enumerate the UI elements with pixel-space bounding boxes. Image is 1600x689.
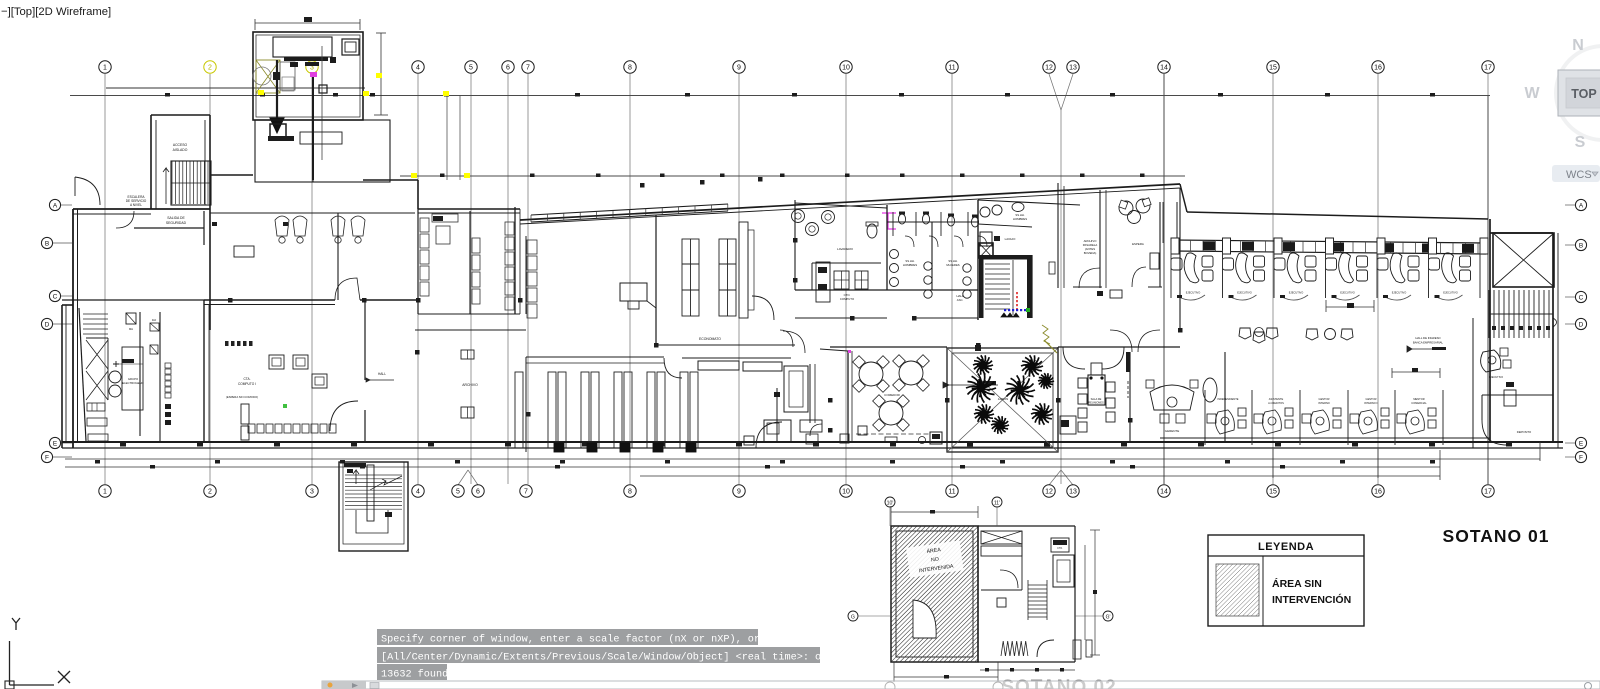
svg-text:BOVEDA): BOVEDA) bbox=[1084, 251, 1097, 255]
lobby chairs group 1 bbox=[1239, 328, 1251, 339]
subplan lower door arc bbox=[1037, 640, 1054, 657]
subplan right dimension lines bbox=[1094, 530, 1096, 655]
svg-text:GESTOR: GESTOR bbox=[1366, 397, 1377, 401]
subplan interior walls bbox=[1021, 531, 1023, 590]
electrogeno right stack bbox=[165, 363, 171, 398]
bottom dimension ticks row2 bbox=[150, 465, 155, 469]
computo hatch strip bbox=[225, 341, 253, 346]
svg-text:C: C bbox=[53, 293, 58, 300]
stair core heavy walls bbox=[979, 255, 984, 318]
right window band dark segments bbox=[1203, 241, 1474, 253]
tower arrow small marks bbox=[273, 72, 280, 80]
svg-text:B: B bbox=[1579, 242, 1583, 249]
green dot bbox=[283, 404, 287, 408]
right rotated cubicle bbox=[1481, 350, 1501, 372]
svg-text:ARCHIVO: ARCHIVO bbox=[462, 383, 478, 387]
bath hombres fixtures bbox=[890, 250, 899, 259]
subplan comb hatch bottom bbox=[1001, 641, 1028, 656]
svg-text:15: 15 bbox=[1269, 65, 1277, 72]
right window band mullions bbox=[1178, 240, 1478, 254]
darker grid lines 14 and 17 bbox=[1163, 74, 1165, 484]
grid bubbles bottom row 1-17 bbox=[99, 485, 1494, 497]
external stair inner landing bbox=[356, 510, 388, 533]
tower dimension right bbox=[380, 33, 382, 115]
svg-text:D: D bbox=[1579, 321, 1584, 328]
svg-text:LAVADERO: LAVADERO bbox=[837, 247, 854, 251]
subplan top X boxes bbox=[981, 531, 1022, 544]
lavadero room walls bbox=[794, 200, 796, 290]
svg-text:(ESPERA SIN COMODO): (ESPERA SIN COMODO) bbox=[226, 395, 258, 399]
svg-text:FLD: FLD bbox=[152, 320, 157, 322]
yellow highlight squares bbox=[258, 90, 264, 95]
svg-text:ESPERA: ESPERA bbox=[1132, 242, 1144, 246]
jardin palm trees bbox=[973, 355, 993, 374]
svg-text:1: 1 bbox=[103, 489, 107, 496]
svg-text:C: C bbox=[1579, 294, 1584, 301]
economato separating wall bbox=[655, 215, 657, 345]
sala chairs bbox=[1078, 378, 1087, 388]
dark door posts left section bbox=[283, 222, 288, 226]
gerente desk bbox=[1150, 385, 1194, 410]
secondary dimension line with ticks bbox=[400, 175, 1185, 177]
svg-text:D: D bbox=[45, 321, 50, 328]
legend box bbox=[1208, 535, 1364, 626]
corridor wall segments left of comedor bbox=[809, 364, 811, 423]
svg-text:SALIDA DE: SALIDA DE bbox=[167, 216, 185, 220]
gerente side table bbox=[1203, 378, 1217, 402]
door arc salida bbox=[116, 211, 134, 228]
deposito door arc bbox=[1482, 420, 1507, 445]
left corridor wall bbox=[204, 299, 335, 301]
salida de seguridad room walls bbox=[134, 227, 204, 229]
svg-text:E: E bbox=[53, 440, 58, 447]
svg-text:INDEPENDIENTE: INDEPENDIENTE bbox=[1217, 397, 1238, 401]
tower small rects bbox=[280, 62, 295, 90]
svg-text:GERENTE: GERENTE bbox=[1165, 429, 1180, 433]
subplan cuarto maquinas box bbox=[1051, 538, 1069, 552]
svg-text:10': 10' bbox=[887, 501, 894, 507]
door arc corridor bbox=[335, 278, 360, 300]
sofa strip left of economato bbox=[527, 240, 537, 318]
magenta fixture marker bbox=[882, 213, 896, 229]
tower below rooms bbox=[255, 120, 390, 182]
svg-text:9: 9 bbox=[737, 489, 741, 496]
svg-text:INTERNO II: INTERNO II bbox=[1364, 401, 1378, 405]
svg-text:WCS: WCS bbox=[1566, 169, 1592, 181]
storage room B walls bbox=[514, 207, 516, 314]
right window band bay posts bbox=[1171, 238, 1488, 254]
svg-text:N: N bbox=[1572, 37, 1584, 54]
svg-text:ACCESO: ACCESO bbox=[173, 143, 188, 147]
comedor bottom counter dashed bbox=[856, 433, 930, 435]
upper dimension line ticks bbox=[165, 93, 170, 97]
subplan hatched area outer walls bbox=[891, 526, 978, 662]
stair core red marks bbox=[1016, 292, 1018, 310]
archivo shelf columns bbox=[515, 372, 698, 448]
espera door arc bbox=[1079, 268, 1100, 288]
command history line 1 bbox=[377, 629, 758, 645]
archivo top counter bbox=[526, 356, 664, 358]
computo lower counter appliances bbox=[248, 424, 336, 433]
svg-text:AISLADO: AISLADO bbox=[173, 148, 188, 152]
gerente room walls bbox=[1224, 352, 1226, 442]
subplan area no intervenida label bbox=[906, 540, 964, 577]
svg-text:13632 found: 13632 found bbox=[381, 669, 448, 681]
right section bottom double wall bbox=[1160, 437, 1490, 439]
bottom dimension ticks bbox=[95, 460, 100, 464]
grid bubbles top row 1-17 bbox=[99, 61, 1494, 73]
elevator shaft X right bbox=[1493, 233, 1554, 287]
espera sofa rect bbox=[1150, 253, 1159, 269]
right stair rail squares bbox=[1492, 326, 1496, 330]
svg-text:A.CREDITOS: A.CREDITOS bbox=[1268, 401, 1284, 405]
subplan door arc interior bbox=[1000, 570, 1018, 588]
svg-text:12: 12 bbox=[1045, 65, 1053, 72]
electrogeno tanks bbox=[109, 371, 121, 383]
svg-text:[All/Center/Dynamic/Extents/Pr: [All/Center/Dynamic/Extents/Previous/Sca… bbox=[381, 652, 821, 664]
dispenso shelf strip bbox=[816, 262, 830, 302]
svg-text:EJECUTIVO: EJECUTIVO bbox=[1392, 291, 1407, 295]
training room inner walls bbox=[337, 213, 339, 300]
ramp top stair treads bbox=[83, 314, 108, 334]
storage room B shelves bbox=[472, 222, 514, 310]
bath stall partitions top bbox=[893, 212, 968, 236]
building bottom exterior wall bbox=[62, 441, 1563, 443]
lower cubicle partitions bbox=[1205, 390, 1443, 445]
zigzag door seal bbox=[1042, 325, 1050, 344]
ramp left slanted wall bbox=[79, 308, 86, 441]
ucs icon Y axis bbox=[12, 618, 20, 630]
svg-text:REUNIONES: REUNIONES bbox=[1088, 401, 1104, 405]
svg-text:MENTOR: MENTOR bbox=[1413, 397, 1424, 401]
svg-text:17: 17 bbox=[1484, 489, 1492, 496]
subplan stair vertical run bbox=[1028, 580, 1047, 620]
jardin diagonals bbox=[947, 348, 1058, 452]
stair upper-left up arrow bbox=[163, 168, 169, 204]
tower small square marker on line bbox=[319, 85, 327, 93]
subplan bubbles top bbox=[885, 497, 895, 507]
bath stall door arcs bbox=[905, 236, 914, 247]
mid window band bbox=[531, 204, 728, 215]
svg-text:G: G bbox=[851, 615, 855, 621]
lower rooms top wall bbox=[830, 346, 947, 348]
svg-text:5: 5 bbox=[469, 65, 473, 72]
garden top wall tick bbox=[975, 345, 981, 351]
svg-text:6: 6 bbox=[506, 65, 510, 72]
top-left block walls bbox=[73, 208, 210, 210]
magenta marker small bbox=[310, 72, 317, 77]
stair core blue dots bbox=[1004, 309, 1026, 311]
svg-text:10: 10 bbox=[842, 65, 850, 72]
bath mujeres fixtures bbox=[963, 264, 971, 272]
svg-text:W: W bbox=[1524, 85, 1540, 102]
dimension bracket over mentor cubicle bbox=[1392, 371, 1440, 373]
svg-text:SEGURIDAD: SEGURIDAD bbox=[166, 221, 187, 225]
subplan side bubbles bbox=[848, 611, 858, 621]
svg-text:13: 13 bbox=[1069, 65, 1077, 72]
svg-text:HOMBRES: HOMBRES bbox=[1013, 217, 1027, 221]
tower corner double square bbox=[342, 39, 359, 55]
svg-text:COMERCIAL: COMERCIAL bbox=[1411, 401, 1427, 405]
sala corner machine bbox=[1061, 420, 1069, 427]
left section corridor wall bbox=[62, 299, 204, 301]
left exterior wall bbox=[72, 209, 74, 448]
electrogeno black dashes bbox=[165, 404, 171, 409]
storage room A dark marks bbox=[433, 216, 443, 221]
hall arrow bbox=[366, 378, 370, 382]
economato door arc bbox=[752, 296, 774, 320]
subplan right block walls bbox=[978, 525, 1075, 527]
command history line 2 bbox=[377, 647, 820, 663]
tram vertical label bbox=[1049, 262, 1055, 274]
archivo left wall bbox=[525, 357, 527, 452]
bottom wall door ticks bbox=[120, 443, 126, 447]
svg-text:17: 17 bbox=[1484, 65, 1492, 72]
wcs selector bbox=[1552, 165, 1600, 182]
svg-text:A: A bbox=[53, 202, 58, 209]
long interior wall below band bbox=[525, 236, 527, 314]
svg-text:15: 15 bbox=[1269, 489, 1277, 496]
svg-text:EJECUTIVO: EJECUTIVO bbox=[1186, 291, 1201, 295]
executive cubicle row top bbox=[1171, 253, 1213, 300]
sala black post and dashes bbox=[1126, 352, 1130, 372]
espera walls bbox=[1159, 202, 1161, 287]
svg-text:GESTOR: GESTOR bbox=[1319, 397, 1330, 401]
svg-text:F: F bbox=[1579, 454, 1583, 461]
escalator symbol box bbox=[126, 313, 136, 324]
svg-text:HOMBRES: HOMBRES bbox=[903, 263, 917, 267]
svg-text:16: 16 bbox=[1374, 65, 1382, 72]
bath block bottom wall bbox=[795, 289, 978, 291]
svg-text:INTERNO: INTERNO bbox=[1318, 401, 1330, 405]
svg-text:11: 11 bbox=[948, 65, 955, 72]
sala table bbox=[1088, 375, 1105, 405]
FLD boxes bbox=[150, 323, 159, 331]
subplan door arc white bbox=[913, 600, 936, 638]
shaft verticals above building bbox=[446, 96, 448, 180]
wall left of deposito bbox=[1472, 318, 1474, 448]
short dark dimension line upper-left bbox=[106, 87, 365, 89]
wall right of espera bbox=[1179, 188, 1181, 330]
lavajo room bbox=[978, 224, 1032, 227]
bottom dimension vertical drops bbox=[1272, 449, 1274, 478]
svg-text:NO: NO bbox=[931, 556, 940, 563]
svg-text:COMPUTO I: COMPUTO I bbox=[238, 382, 256, 386]
archivo door arc bbox=[664, 358, 682, 378]
svg-text:14: 14 bbox=[1160, 489, 1168, 496]
external stair black mark bbox=[385, 512, 392, 517]
slanted top exterior wall bbox=[520, 184, 1180, 220]
tower inner room rect bbox=[273, 37, 332, 57]
svg-text:E: E bbox=[1579, 440, 1584, 447]
archivo shelf feet bbox=[554, 443, 564, 452]
door post squares scattered bbox=[640, 183, 645, 188]
right window band bbox=[1173, 240, 1486, 243]
sala de reuniones walls bbox=[1057, 347, 1059, 442]
comedor corner magenta dot bbox=[848, 350, 851, 353]
corridor door arcs mid bbox=[783, 331, 805, 353]
door arcs corridor right bbox=[1110, 330, 1132, 352]
subplan hatch pattern bbox=[759, 526, 1172, 662]
svg-text:HALL: HALL bbox=[378, 372, 386, 376]
corridor wall below bathrooms bbox=[795, 317, 887, 319]
subplan bottom bubbles partial bbox=[885, 682, 895, 689]
external stair up arrow bbox=[353, 470, 359, 484]
entrance door arc lower-left of stair block bbox=[75, 177, 100, 205]
svg-text:EJECUTIVO: EJECUTIVO bbox=[1443, 291, 1458, 295]
svg-text:ASISTENTE: ASISTENTE bbox=[1269, 397, 1284, 401]
lobby chairs group 2 bbox=[1306, 329, 1318, 340]
archivo small tables bbox=[461, 350, 474, 359]
svg-text:14: 14 bbox=[1160, 65, 1168, 72]
subplan right wall strips bbox=[1073, 640, 1081, 659]
dispenso stoves bbox=[834, 271, 849, 289]
svg-text:BANCA EMPRESARIAL: BANCA EMPRESARIAL bbox=[1413, 341, 1444, 345]
svg-text:EJECUTIVO: EJECUTIVO bbox=[1237, 291, 1252, 295]
svg-text:1: 1 bbox=[103, 65, 107, 72]
economato rack 1 bbox=[682, 239, 699, 316]
external stair dark top entry bbox=[344, 463, 366, 467]
svg-text:3: 3 bbox=[310, 489, 314, 496]
svg-text:EJECUTIVO: EJECUTIVO bbox=[1340, 291, 1355, 295]
left low bay wall bbox=[61, 305, 63, 448]
svg-text:COMPUTO: COMPUTO bbox=[840, 297, 855, 301]
bottom dimension line 2 bbox=[65, 466, 1440, 468]
external stair break line bbox=[370, 476, 402, 490]
command input bar bbox=[322, 681, 1600, 689]
row letter bubbles left side bbox=[49, 199, 60, 210]
jardin olive corner line bbox=[1044, 340, 1057, 353]
viewcube compass ring bbox=[1556, 46, 1600, 140]
subplan top dimension bbox=[891, 511, 978, 513]
right section top jog bbox=[1180, 184, 1187, 212]
lavadero toilet bbox=[867, 224, 877, 238]
espera second door arc bbox=[1132, 267, 1146, 287]
svg-text:CTA.: CTA. bbox=[243, 377, 250, 381]
jardin planter box bbox=[947, 348, 1058, 452]
storage room A shelves bbox=[420, 214, 458, 296]
right end block bbox=[1489, 219, 1491, 442]
bottom grid V-join lines bbox=[458, 470, 1073, 485]
svg-text:11: 11 bbox=[948, 489, 955, 496]
tower black fitting cluster bbox=[284, 57, 328, 61]
svg-text:16: 16 bbox=[1374, 489, 1382, 496]
corridor wall mid lower bbox=[656, 344, 795, 346]
svg-text:B: B bbox=[45, 240, 49, 247]
svg-text:2: 2 bbox=[208, 65, 212, 72]
tower vertical riser line bbox=[312, 77, 314, 180]
column grid vertical lines bbox=[105, 74, 1488, 484]
svg-text:7: 7 bbox=[526, 65, 530, 72]
svg-text:S: S bbox=[1575, 134, 1586, 151]
lavadero basins bbox=[792, 210, 805, 223]
svg-text:9: 9 bbox=[737, 65, 741, 72]
top edge left-mid section bbox=[210, 174, 253, 176]
svg-text:EJECUTIVO: EJECUTIVO bbox=[1489, 376, 1503, 379]
svg-text:TOP: TOP bbox=[1571, 87, 1596, 101]
svg-text:10: 10 bbox=[842, 489, 850, 496]
svg-text:F: F bbox=[45, 454, 49, 461]
stair core green mark bbox=[1026, 308, 1030, 312]
economato right shelf strip bbox=[739, 222, 748, 318]
mid lower corridor wall bbox=[415, 329, 526, 331]
economato rack 2 bbox=[719, 239, 736, 316]
executive cubicle partitions bbox=[1171, 250, 1480, 298]
svg-text:7: 7 bbox=[524, 489, 528, 496]
upper bath sshh top right bbox=[978, 200, 1080, 205]
legend divider bbox=[1262, 556, 1264, 626]
svg-text:2: 2 bbox=[208, 489, 212, 496]
espera room furniture bbox=[1119, 201, 1133, 215]
svg-text:8: 8 bbox=[628, 65, 632, 72]
lectern mid bbox=[620, 283, 647, 301]
stair upper-left walls bbox=[171, 161, 211, 205]
svg-text:12: 12 bbox=[1045, 489, 1053, 496]
legend hatched swatch bbox=[1216, 564, 1259, 616]
computo inner equipment rects bbox=[241, 404, 249, 424]
stair upper-left treads bbox=[172, 161, 208, 204]
tower dimension top bbox=[255, 22, 360, 24]
dimension bracket bay4 bbox=[1326, 306, 1374, 308]
wall right of economato lower bbox=[776, 388, 778, 442]
right stair treads bbox=[1489, 290, 1553, 338]
bath hombres walls bbox=[886, 205, 888, 290]
corridor door arcs west bbox=[780, 330, 793, 347]
elevator cab dark bbox=[979, 243, 993, 258]
deposito room bbox=[1482, 394, 1553, 396]
bottom dimension line 1 bbox=[65, 458, 1540, 460]
bath stall toilets top row bbox=[898, 214, 905, 224]
comedor left wall bbox=[847, 351, 849, 442]
electrogeno machine bbox=[122, 347, 143, 410]
svg-text:ÁREA SIN: ÁREA SIN bbox=[1272, 577, 1322, 590]
corridor wall below espera bbox=[1073, 286, 1102, 288]
comedor tables bbox=[859, 362, 883, 386]
svg-text:MUJERES: MUJERES bbox=[946, 263, 959, 267]
computo desks bbox=[269, 355, 284, 369]
ramp X braces dashed bbox=[86, 337, 108, 339]
storage room A walls bbox=[417, 209, 419, 314]
svg-text:Specify corner of window, ente: Specify corner of window, enter a scale … bbox=[381, 634, 760, 646]
svg-text:−][Top][2D Wireframe]: −][Top][2D Wireframe] bbox=[1, 6, 111, 18]
external stair outer walls bbox=[339, 462, 408, 551]
external stair center rail bbox=[367, 465, 374, 521]
tower arrow shaft down bbox=[276, 60, 278, 122]
svg-text:ASC.: ASC. bbox=[957, 298, 964, 302]
training room chairs group 1 bbox=[275, 216, 365, 243]
external stair treads bbox=[345, 475, 402, 509]
stair core black hatch bottom bbox=[1001, 313, 1019, 317]
svg-text:ECONOMATO: ECONOMATO bbox=[699, 337, 721, 341]
viewcube TOP face bbox=[1558, 70, 1600, 116]
tower outer walls bbox=[253, 32, 363, 120]
bottom dimension line right extension bbox=[640, 475, 1440, 477]
svg-text:SALA DE: SALA DE bbox=[1091, 397, 1102, 401]
door arc computo bbox=[330, 401, 358, 431]
small table left room bbox=[234, 246, 254, 257]
upper dimension line bbox=[70, 95, 1490, 97]
svg-text:A NIVEL: A NIVEL bbox=[130, 203, 142, 207]
row letter bubbles right side bbox=[1575, 199, 1586, 210]
sala double door arcs bbox=[1063, 347, 1085, 369]
subplan ascensor shaft bbox=[1053, 555, 1074, 587]
ucs icon origin box bbox=[5, 681, 14, 689]
subplan bottom dimensions bbox=[980, 669, 1075, 671]
svg-text:A: A bbox=[1579, 202, 1584, 209]
archivo pasarela walls bbox=[1057, 183, 1059, 288]
cto dispenso room bbox=[812, 262, 881, 264]
gerente chairs bbox=[1160, 414, 1169, 423]
